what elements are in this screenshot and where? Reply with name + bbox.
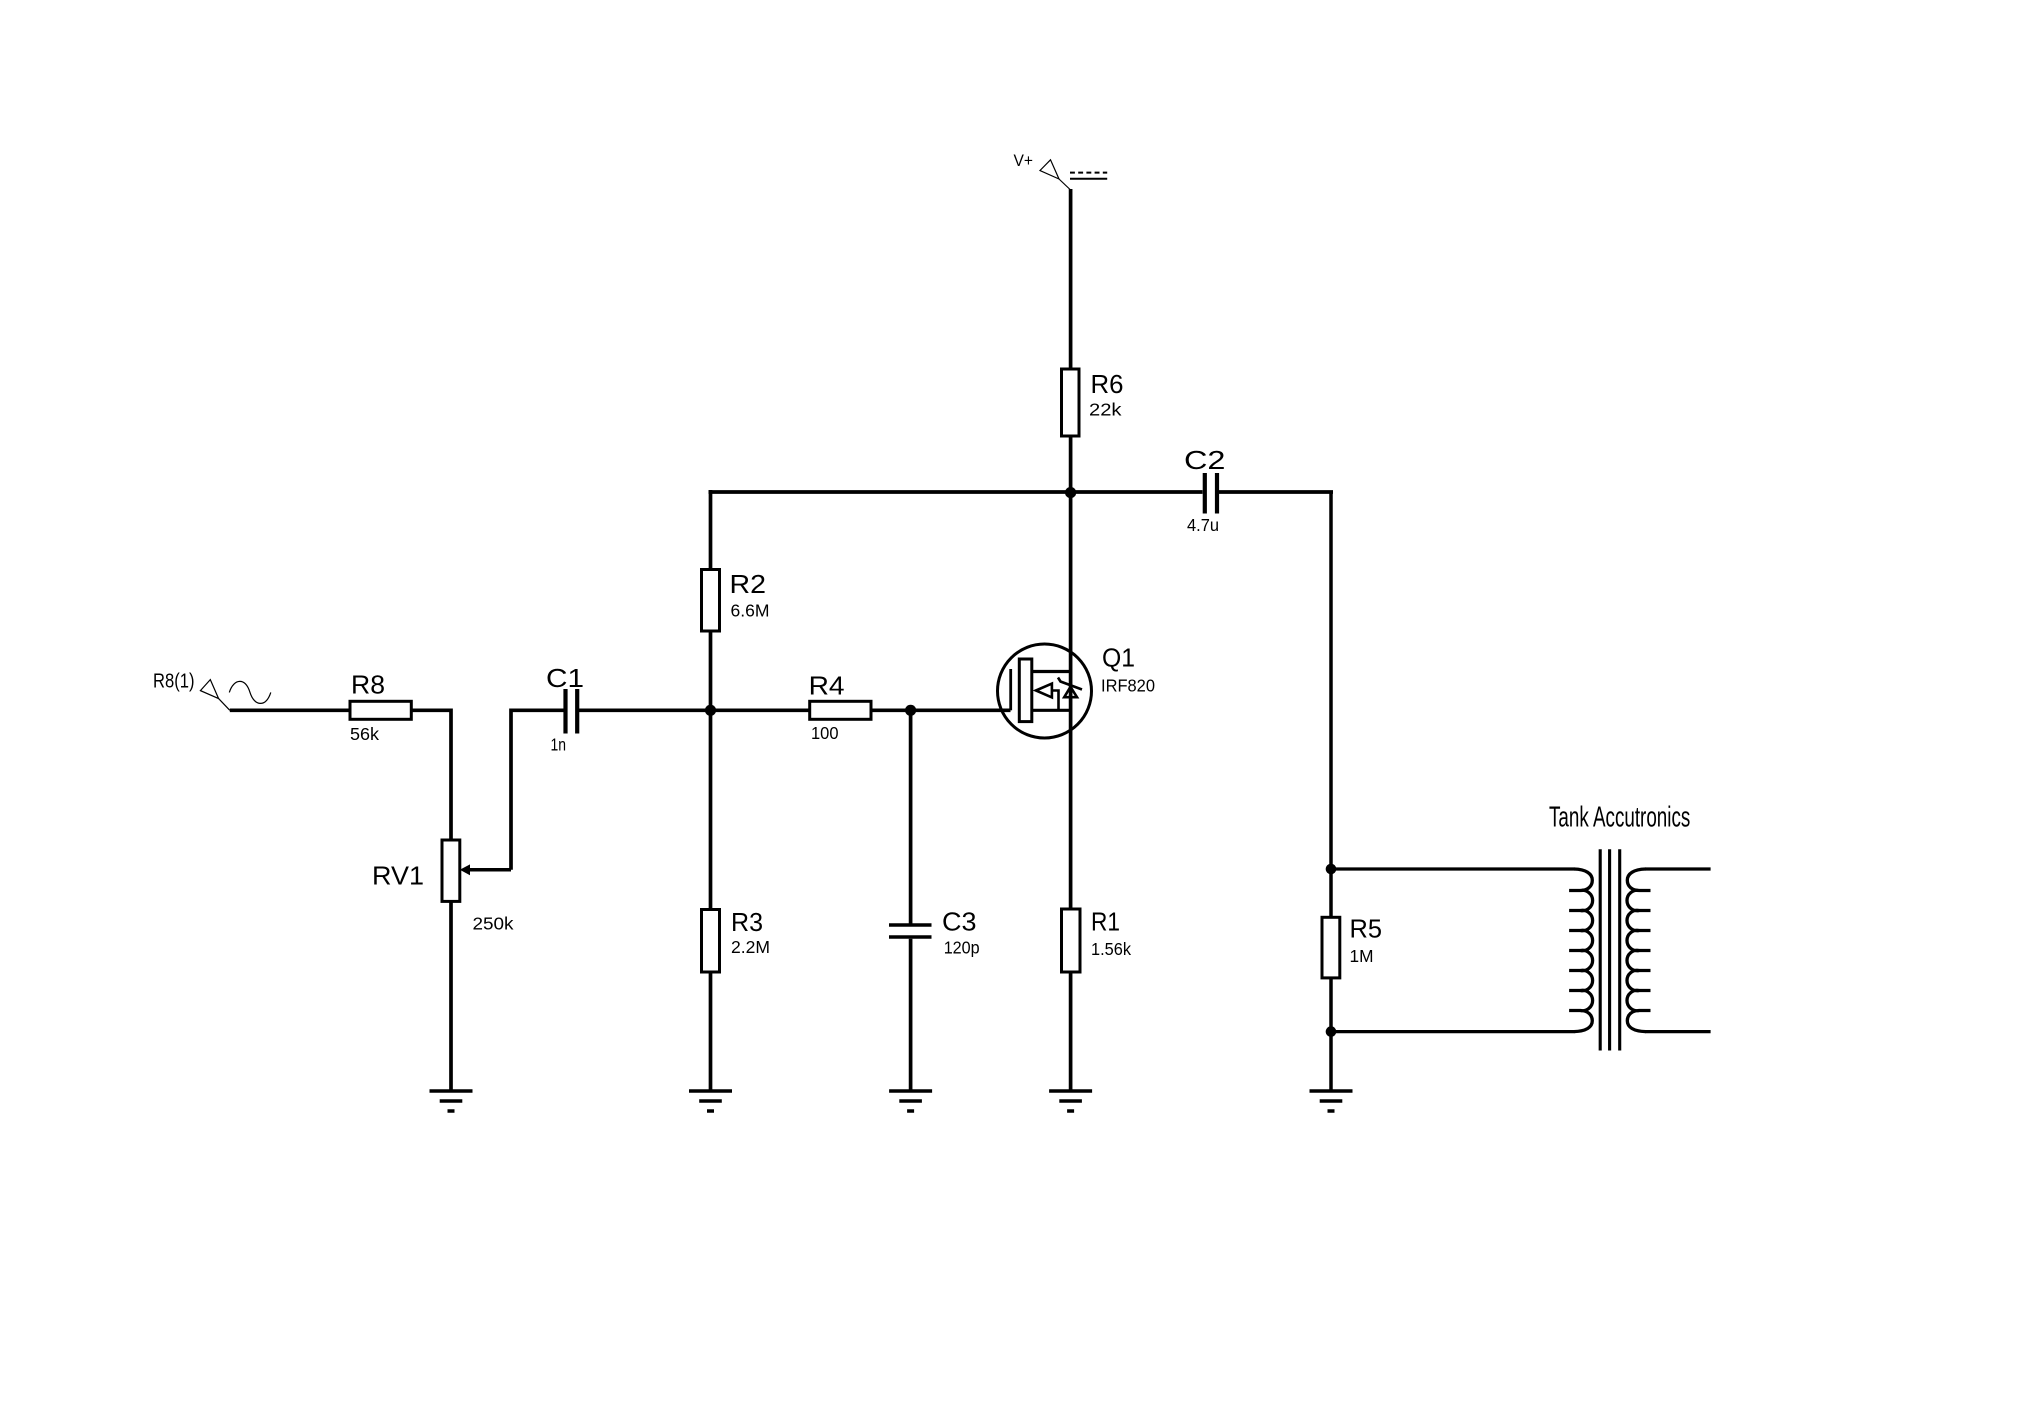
node gate junction dot: [905, 705, 916, 716]
resistor R6 22k: [1062, 369, 1124, 436]
svg-text:R1: R1: [1091, 907, 1120, 937]
svg-text:C3: C3: [942, 907, 977, 937]
secondary bottom lead: [1645, 1030, 1711, 1033]
svg-text:1.56k: 1.56k: [1091, 939, 1131, 959]
svg-text:IRF820: IRF820: [1101, 676, 1155, 696]
primary coil: [1569, 869, 1593, 1032]
body diode: [1064, 687, 1077, 697]
wire input to R8: [230, 708, 351, 712]
wire RV1 bottom to ground: [449, 901, 453, 1092]
transistor Q1 IRF820 N-MOSFET: [998, 643, 1156, 739]
svg-text:120p: 120p: [944, 937, 980, 957]
secondary top lead: [1645, 867, 1711, 870]
svg-text:250k: 250k: [473, 914, 514, 934]
svg-text:V+: V+: [1014, 151, 1034, 170]
svg-text:4.7u: 4.7u: [1187, 515, 1219, 535]
wire R3 to ground: [709, 972, 713, 1092]
wire C3 to ground: [909, 939, 913, 1092]
svg-text:2.2M: 2.2M: [731, 937, 770, 957]
svg-text:100: 100: [811, 723, 839, 743]
node transformer top junction dot: [1326, 864, 1337, 875]
potentiometer RV1 250k: [372, 840, 514, 934]
wire drain node through Q1 to R1: [1069, 492, 1073, 910]
svg-text:R2: R2: [730, 569, 767, 599]
body arrow: [1036, 684, 1052, 698]
gate bar: [1009, 669, 1012, 710]
ground (RV1): [430, 1091, 473, 1111]
channel bar: [1019, 659, 1032, 722]
node drain junction dot: [1065, 487, 1076, 498]
node input junction dot: [705, 705, 716, 716]
svg-text:1n: 1n: [551, 735, 567, 755]
svg-text:6.6M: 6.6M: [731, 601, 770, 621]
transformer T1 Tank Accutronics: [1549, 802, 1711, 1051]
resistor R1 1.56k: [1062, 907, 1132, 972]
ground (R1): [1049, 1091, 1092, 1111]
ground (R3): [689, 1091, 732, 1111]
wire node to R5: [1329, 869, 1333, 918]
resistor R8 56k: [350, 670, 411, 745]
wire drop to R2: [709, 490, 713, 570]
wire input node down to R3: [709, 710, 713, 910]
svg-text:R8: R8: [351, 670, 385, 700]
wire C1 to input node: [579, 708, 708, 712]
wire transformer primary bottom lead: [1331, 1030, 1575, 1033]
svg-text:R3: R3: [731, 907, 763, 937]
wire transformer primary top lead: [1331, 867, 1575, 870]
secondary coil: [1627, 869, 1651, 1032]
wire gate node down to C3: [909, 710, 913, 923]
capacitor C2 4.7u: [1184, 445, 1226, 535]
svg-text:Q1: Q1: [1102, 643, 1135, 673]
svg-text:C2: C2: [1184, 445, 1226, 475]
ground (C3): [889, 1091, 932, 1111]
svg-text:R6: R6: [1091, 369, 1124, 399]
core: [1599, 849, 1602, 1050]
svg-text:RV1: RV1: [372, 861, 424, 891]
capacitor C1 1n: [546, 663, 584, 755]
svg-text:22k: 22k: [1089, 399, 1122, 419]
node transformer bottom junction dot: [1326, 1026, 1337, 1037]
wire R2 to input node: [709, 631, 713, 710]
resistor R5 1M: [1322, 914, 1382, 978]
svg-text:C1: C1: [546, 663, 584, 693]
ground (R5): [1310, 1091, 1353, 1111]
wire R1 to ground: [1069, 972, 1073, 1092]
node V+ terminal: [1014, 151, 1108, 190]
wire RV1 wiper riser to C1: [511, 710, 564, 870]
node R8(1) input terminal with sine source: [153, 671, 271, 711]
wire V+ to R6: [1069, 189, 1073, 370]
resistor R4 100: [809, 671, 871, 744]
wire R5 to ground through bottom node: [1329, 978, 1333, 1092]
svg-text:R8(1): R8(1): [153, 671, 195, 693]
svg-text:R5: R5: [1350, 914, 1383, 944]
wire left along top row to R2 corner: [709, 490, 1203, 494]
wire R6 to drain node: [1069, 436, 1073, 494]
svg-text:1M: 1M: [1350, 946, 1374, 966]
svg-text:R4: R4: [809, 671, 845, 701]
capacitor C3 120p: [889, 907, 980, 958]
wire right corner down to transformer top node: [1329, 492, 1333, 869]
svg-text:56k: 56k: [350, 724, 379, 744]
wire gate node to Q1 gate: [911, 708, 1011, 712]
wire C2 to right corner: [1219, 490, 1333, 494]
resistor R2 6.6M: [702, 569, 770, 631]
wire input node to R4: [712, 708, 811, 712]
wire R4 to gate node: [871, 708, 912, 712]
svg-text:Tank Accutronics: Tank Accutronics: [1549, 802, 1690, 834]
resistor R3 2.2M: [702, 907, 771, 972]
source stub: [1032, 709, 1071, 712]
drain stub: [1032, 670, 1071, 673]
wire R8 to RV1 top: [411, 710, 451, 841]
